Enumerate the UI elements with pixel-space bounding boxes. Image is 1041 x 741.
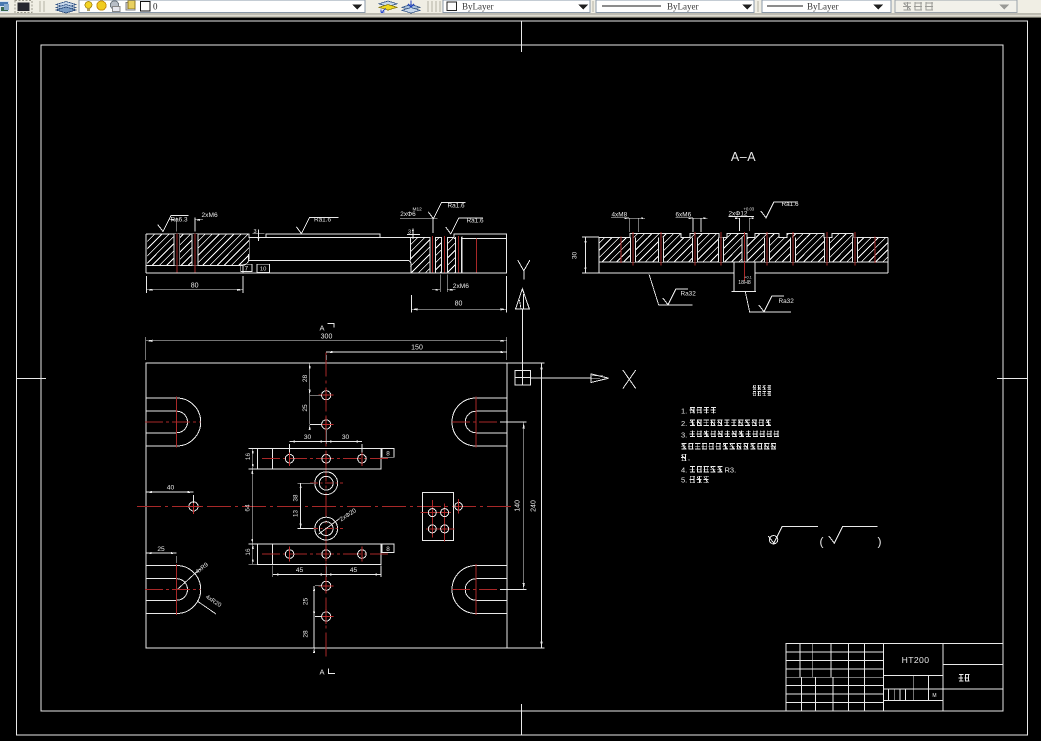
plan slot top-right bbox=[452, 397, 523, 448]
toolbar icon: layer manager (cut off) bbox=[0, 1, 9, 12]
svg-text:Ra1.6: Ra1.6 bbox=[782, 201, 799, 208]
toolbar separators bbox=[428, 1, 440, 12]
svg-text:240: 240 bbox=[531, 500, 538, 512]
A-A top profile bbox=[599, 234, 888, 238]
dim 2xM6 front right bbox=[432, 275, 469, 293]
toolbar icon: make object layer current bbox=[379, 1, 397, 13]
toolbar background bbox=[0, 0, 1041, 18]
front view hatch right block bbox=[368, 237, 490, 273]
plan drill block bbox=[421, 493, 455, 542]
strip height dim 3 bbox=[253, 229, 265, 241]
plan slot bottom-left bbox=[145, 564, 201, 615]
centering tick bottom bbox=[521, 704, 523, 735]
boxed dim 10 bbox=[257, 264, 270, 272]
svg-text:140: 140 bbox=[515, 500, 522, 512]
svg-text:3: 3 bbox=[408, 229, 411, 235]
toolbar icon: layer previous bbox=[402, 1, 420, 14]
svg-text:30: 30 bbox=[572, 252, 579, 260]
dim 45 45 bbox=[273, 565, 381, 577]
svg-text:16: 16 bbox=[245, 453, 252, 461]
A-A slot 9 bbox=[852, 232, 857, 266]
svg-text:25: 25 bbox=[302, 598, 309, 606]
toolbar separator bbox=[757, 1, 759, 12]
toolbar separator bbox=[40, 1, 44, 12]
plan hole bottom 2 bbox=[319, 609, 334, 624]
A-A slot 6 bbox=[764, 232, 769, 266]
svg-text:25: 25 bbox=[302, 404, 309, 412]
front view outline bbox=[146, 234, 506, 273]
svg-text:28: 28 bbox=[302, 375, 309, 383]
toolbar layer combo bbox=[79, 0, 365, 13]
svg-text:30: 30 bbox=[304, 434, 312, 441]
svg-text:+0.03: +0.03 bbox=[744, 206, 755, 211]
global roughness symbol with circle bbox=[768, 526, 818, 544]
svg-text:28: 28 bbox=[302, 630, 309, 638]
front view tapped hole left 2 bbox=[192, 234, 198, 273]
svg-text:3: 3 bbox=[253, 229, 256, 235]
plan center boss circle upper bbox=[310, 472, 343, 495]
dim 25 bottom-mid bbox=[302, 586, 322, 617]
svg-text:80: 80 bbox=[191, 283, 199, 290]
A-A view title bbox=[731, 150, 756, 164]
svg-text:80: 80 bbox=[455, 300, 463, 307]
svg-text:HT200: HT200 bbox=[902, 655, 930, 665]
svg-text:,: , bbox=[688, 455, 690, 462]
note 5 bbox=[681, 476, 709, 485]
svg-text:M12: M12 bbox=[413, 207, 423, 213]
dim 140 bbox=[500, 422, 527, 590]
title block frame bbox=[786, 644, 1003, 712]
section mark A top bbox=[319, 324, 334, 333]
roughness Ra6.3 front left bbox=[158, 216, 189, 232]
svg-text:8: 8 bbox=[386, 451, 390, 458]
note 1 bbox=[681, 406, 716, 415]
dim 25 top bbox=[302, 390, 322, 430]
A-A label 2xPhi12 bbox=[729, 206, 755, 231]
plan hole right of block bbox=[455, 499, 463, 514]
svg-text:A: A bbox=[319, 668, 324, 677]
A-A extra centerline left bbox=[620, 237, 622, 264]
svg-text:13: 13 bbox=[293, 510, 300, 517]
svg-text:16: 16 bbox=[245, 548, 252, 556]
svg-text:M: M bbox=[932, 693, 936, 699]
plan hole top 2 bbox=[319, 417, 334, 432]
svg-text:): ) bbox=[878, 535, 882, 549]
dim 240 bbox=[507, 363, 545, 648]
toolbar lineweight combo ByLayer bbox=[762, 0, 891, 13]
plan slot bottom-right bbox=[452, 564, 523, 615]
svg-text:5.: 5. bbox=[681, 476, 687, 485]
front view tapped hole right 2 bbox=[442, 236, 448, 273]
boxed dim 7 bbox=[241, 264, 252, 272]
global roughness symbol plain bbox=[829, 526, 878, 543]
toolbar icon: make layer current bbox=[15, 1, 32, 13]
leader 4xR9 bbox=[178, 562, 210, 589]
svg-text:(: ( bbox=[820, 535, 824, 549]
plan holes upper sub-plate bbox=[285, 451, 366, 466]
roughness Ra1.6 front right lower bbox=[446, 217, 484, 234]
dim 25 bottom-left bbox=[146, 546, 177, 563]
front view bottom relief bbox=[146, 254, 411, 273]
leader 4xR20 bbox=[197, 594, 223, 614]
title block material cell HT200 bbox=[883, 655, 942, 676]
toolbar plot style combo (disabled) bbox=[895, 0, 1017, 13]
dim 300 bbox=[146, 333, 507, 360]
svg-text:300: 300 bbox=[321, 333, 333, 340]
centering tick left bbox=[17, 377, 47, 379]
centering tick top bbox=[521, 21, 523, 52]
front view hole centerline right 4 bbox=[476, 238, 478, 272]
toolbar linetype combo ByLayer bbox=[596, 0, 754, 13]
centering tick right bbox=[997, 377, 1028, 379]
dim 8 upper boxed bbox=[381, 449, 394, 458]
dim 80 front right bbox=[411, 276, 506, 313]
dim 8 lower boxed bbox=[381, 544, 394, 553]
svg-text:45: 45 bbox=[350, 567, 358, 574]
svg-text:18H8: 18H8 bbox=[738, 280, 751, 286]
svg-text:ByLayer: ByLayer bbox=[462, 2, 494, 12]
front view tapped hole right 1 bbox=[430, 236, 436, 273]
svg-text:1.: 1. bbox=[681, 406, 687, 415]
A-A dim 30 bbox=[572, 237, 600, 273]
A-A slot 8 bbox=[824, 232, 829, 266]
svg-text:A: A bbox=[319, 324, 324, 333]
front view hatch left block bbox=[109, 234, 277, 265]
A-A slot 1 bbox=[630, 232, 635, 266]
title block right cells bbox=[943, 665, 1003, 689]
svg-text:Ra32: Ra32 bbox=[779, 298, 795, 305]
svg-text:0: 0 bbox=[153, 2, 158, 12]
A-A label 6xM6 bbox=[676, 212, 708, 232]
roughness Ra1.6 front right upper bbox=[428, 202, 465, 218]
dim 28 top bbox=[302, 363, 322, 395]
A-A label 4xM8 bbox=[611, 212, 645, 232]
title block left grid bbox=[786, 644, 883, 712]
note 2 bbox=[681, 419, 771, 428]
A-A roughness Ra1.6 top bbox=[761, 201, 799, 218]
note 3 continuation bbox=[681, 443, 776, 450]
A-A leader roughness Ra32 right bbox=[745, 292, 794, 312]
note 3 end bbox=[681, 454, 690, 462]
svg-text:8: 8 bbox=[386, 546, 390, 553]
toolbar separator bbox=[592, 1, 594, 12]
title block middle grid bbox=[883, 676, 942, 701]
parenthesis left bbox=[820, 535, 824, 549]
plan center boss circle lower 2xPhi20 bbox=[310, 507, 358, 540]
plan slot top-left 4xR9 bbox=[145, 397, 201, 448]
svg-text:64: 64 bbox=[245, 504, 252, 512]
section mark A bottom bbox=[319, 668, 335, 677]
svg-text:ByLayer: ByLayer bbox=[807, 2, 839, 12]
svg-text:Ra1.6: Ra1.6 bbox=[448, 202, 465, 209]
svg-text:3.: 3. bbox=[681, 430, 687, 439]
tiny step dim 3 right bbox=[407, 229, 420, 239]
dim 80 front left bbox=[147, 276, 243, 293]
UCS icon bbox=[515, 260, 636, 388]
A-A slot 4 bbox=[718, 232, 723, 266]
parenthesis right bbox=[878, 535, 882, 549]
A-A slot 7 bbox=[790, 232, 795, 266]
svg-text:R3.: R3. bbox=[725, 466, 737, 475]
plan main centerline vertical bbox=[325, 353, 327, 659]
dim 64 bbox=[245, 469, 254, 544]
svg-text:40: 40 bbox=[167, 485, 175, 492]
toolbar icon: layers stack bbox=[56, 2, 76, 14]
svg-text:30: 30 bbox=[342, 434, 350, 441]
dim 40 bbox=[146, 485, 194, 504]
notes header bbox=[752, 385, 771, 396]
dim 38 13 bbox=[293, 483, 314, 528]
svg-text:38: 38 bbox=[293, 494, 300, 501]
svg-text:25: 25 bbox=[157, 546, 165, 553]
front view raised wear strip bbox=[266, 234, 380, 238]
note 3 bbox=[681, 430, 779, 439]
A-A center slot block 18H8 bbox=[732, 262, 756, 292]
dim 30 30 bbox=[290, 430, 362, 453]
note 4 bbox=[681, 466, 736, 475]
dim 28 bottom-mid bbox=[302, 612, 315, 653]
svg-text:Ra1.6: Ra1.6 bbox=[314, 216, 331, 223]
A-A hatch body bbox=[573, 233, 907, 262]
dim 2xM6 front left bbox=[169, 212, 218, 232]
A-A body outline bbox=[599, 238, 888, 274]
dim 16 upper bbox=[245, 449, 258, 469]
svg-text:45: 45 bbox=[296, 567, 304, 574]
front view tapped hole left 1 bbox=[174, 234, 180, 273]
A-A slot 5 bbox=[742, 232, 747, 266]
front view hole right 3 bbox=[455, 236, 461, 273]
svg-text:Ra32: Ra32 bbox=[681, 291, 697, 298]
plan holes lower sub-plate bbox=[285, 547, 366, 562]
svg-text:Ra1.6: Ra1.6 bbox=[467, 217, 484, 224]
plan upper sub-plate bbox=[258, 449, 391, 469]
svg-text:10: 10 bbox=[260, 267, 266, 273]
A-A leader roughness Ra32 left bbox=[649, 274, 696, 304]
svg-text:2.: 2. bbox=[681, 419, 687, 428]
svg-text:ByLayer: ByLayer bbox=[667, 2, 699, 12]
plan main centerline horizontal bbox=[137, 505, 515, 507]
label 2xPhi6 front right bbox=[400, 207, 438, 234]
svg-text:2xM6: 2xM6 bbox=[453, 283, 469, 290]
svg-text:4.: 4. bbox=[681, 466, 687, 475]
svg-text:7: 7 bbox=[245, 265, 249, 272]
A-A extra centerline right bbox=[874, 237, 876, 264]
plan hole bottom 1 bbox=[319, 578, 334, 593]
svg-text:2xM6: 2xM6 bbox=[202, 212, 218, 219]
plan hole left bbox=[186, 499, 201, 514]
svg-text:150: 150 bbox=[411, 345, 423, 352]
svg-text:+0.1: +0.1 bbox=[744, 276, 752, 280]
dim 16 lower bbox=[245, 544, 258, 564]
A-A slot 3 bbox=[692, 232, 697, 266]
plan view outline bbox=[146, 363, 507, 648]
A-A slot 2 bbox=[658, 232, 663, 266]
plan hole top 1 bbox=[319, 388, 334, 403]
toolbar color combo ByLayer bbox=[443, 0, 590, 13]
plan lower sub-plate bbox=[258, 544, 391, 564]
roughness Ra1.6 front middle bbox=[296, 216, 338, 233]
svg-text:A–A: A–A bbox=[731, 150, 756, 164]
dim 150 bbox=[326, 345, 507, 360]
